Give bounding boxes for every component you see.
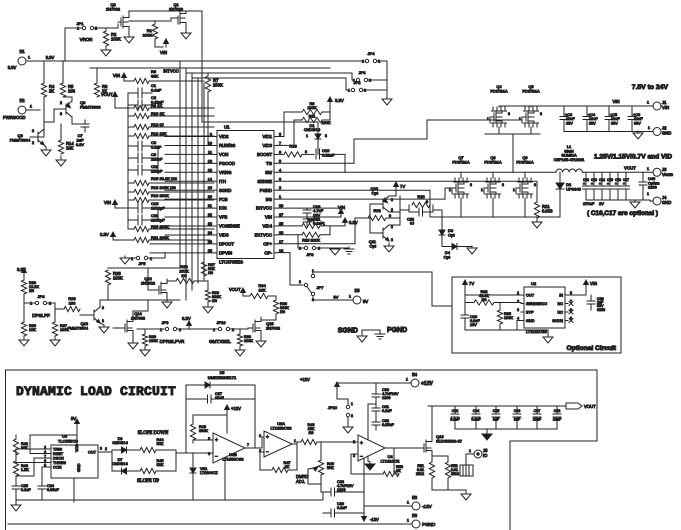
power tag 3.3V (jumpers)	[182, 316, 191, 329]
connector sense header	[460, 454, 473, 476]
capacitor C34 0.1uF	[471, 406, 481, 429]
svg-text:VIN: VIN	[662, 105, 669, 110]
capacitor C6 10uF 35V	[628, 106, 643, 132]
wire U1 VRNG pin wire	[165, 171, 214, 173]
wire ladder join lower	[157, 208, 159, 220]
wire TG gate route	[354, 120, 522, 163]
wire VIN pin net	[277, 216, 341, 218]
svg-text:0.1uF: 0.1uF	[151, 88, 162, 93]
svg-text:0.1uF: 0.1uF	[151, 145, 162, 150]
svg-text:2N7002: 2N7002	[169, 7, 184, 12]
wire TG net	[277, 162, 354, 164]
wire VID0 riser	[294, 119, 302, 121]
jumper JP3	[353, 70, 371, 83]
capacitor C11 220pF	[128, 164, 163, 175]
svg-text:TG: TG	[266, 161, 273, 166]
svg-text:6.3V: 6.3V	[76, 142, 85, 147]
svg-text:R18 249K 1%: R18 249K 1%	[151, 185, 176, 190]
svg-text:VFB: VFB	[219, 215, 227, 220]
svg-text:100K: 100K	[244, 339, 253, 343]
svg-text:1%: 1%	[280, 310, 285, 314]
svg-text:18: 18	[208, 240, 212, 244]
svg-text:GND: GND	[526, 319, 535, 323]
resistor R33 103	[55, 296, 80, 312]
svg-text:23: 23	[208, 222, 212, 226]
svg-text:0: 0	[426, 200, 428, 204]
resistor R18 249K 1%	[128, 185, 176, 195]
wire VOUT rail	[583, 171, 652, 173]
svg-text:SLOPE UP: SLOPE UP	[137, 479, 159, 484]
wire ladder row R31	[149, 239, 210, 241]
resistor R4 2K	[41, 61, 55, 97]
wire ladder join	[157, 146, 159, 170]
terminal E5	[349, 288, 368, 304]
wire U1 SGND pin wire	[165, 189, 214, 191]
wire Q3 collector down	[72, 117, 85, 124]
svg-text:GND: GND	[77, 463, 81, 472]
wire U5 pin mesh 2	[30, 435, 77, 454]
ground JP11	[343, 425, 353, 433]
wire ladder row R10	[149, 115, 214, 117]
svg-text:R26 200K: R26 200K	[302, 238, 320, 243]
wire Q3 base net	[44, 109, 59, 122]
svg-text:270uF: 270uF	[583, 201, 595, 206]
wire feedback left riser	[185, 385, 187, 453]
resistor R48 390K	[190, 424, 208, 440]
svg-text:8: 8	[470, 183, 472, 187]
capacitor C33 0.1uF	[450, 406, 460, 429]
wire INTVCC pin net	[277, 207, 338, 209]
svg-text:VID0: VID0	[262, 143, 272, 148]
svg-text:1%: 1%	[482, 298, 487, 302]
svg-text:9: 9	[210, 133, 212, 137]
svg-text:BYP: BYP	[526, 311, 534, 315]
svg-text:VID2: VID2	[219, 134, 229, 139]
resistor R23 200K	[128, 224, 169, 232]
svg-text:VRNG: VRNG	[219, 170, 232, 175]
svg-text:C34: C34	[473, 409, 480, 413]
ground for Q6 emitter	[41, 147, 51, 156]
wire U3A feedback	[288, 444, 297, 470]
transistor Q10 Opt	[370, 186, 393, 212]
capacitor C26 3.3uF 16V	[461, 303, 480, 331]
wire EXTVCC net	[277, 234, 302, 236]
resistor R28 100K	[105, 270, 123, 300]
label SLOPE DOWN	[138, 431, 169, 436]
svg-text:Opt: Opt	[372, 191, 379, 196]
svg-text:1: 1	[213, 328, 215, 332]
svg-text:12uF: 12uF	[553, 418, 562, 422]
capacitor C32 0.05uF	[372, 418, 395, 430]
svg-text:INTVCC: INTVCC	[256, 206, 272, 211]
svg-text:3.3V: 3.3V	[46, 55, 55, 60]
wire U1 VOSENSE pin wire	[165, 225, 214, 227]
ground optional circuit	[543, 335, 553, 343]
svg-text:JP6: JP6	[38, 294, 46, 299]
jumper JP6	[24, 294, 55, 306]
net label VRON	[80, 37, 93, 42]
svg-text:2: 2	[351, 414, 353, 418]
resistor R42 33K	[13, 439, 28, 455]
transistor Q6 FMMT3904	[10, 129, 44, 145]
ground symbol SGND	[357, 330, 380, 342]
svg-text:BOOST: BOOST	[257, 152, 272, 157]
svg-text:DSCH: DSCH	[53, 457, 64, 461]
resistor R19 230K	[128, 193, 169, 203]
svg-text:2: 2	[60, 101, 62, 105]
net label VOUT (output)	[624, 166, 636, 171]
capacitor C5 10uF 35V	[605, 106, 620, 132]
svg-text:1: 1	[28, 56, 30, 60]
ground for Q14	[128, 340, 138, 349]
ground for R37	[50, 336, 60, 346]
jumper JP1	[77, 21, 97, 31]
svg-text:1uF: 1uF	[514, 418, 521, 422]
svg-text:LT1358CS8: LT1358CS8	[222, 457, 244, 462]
diode VR1 LT1634CZ	[190, 453, 218, 500]
resistor R21 0.008	[534, 202, 553, 218]
power tag VIN	[160, 39, 168, 55]
svg-text:1: 1	[469, 449, 471, 453]
svg-text:VIN: VIN	[590, 281, 597, 286]
svg-text:11: 11	[208, 150, 212, 154]
svg-text:-12V: -12V	[422, 504, 433, 509]
wire ladder row R9	[149, 80, 204, 82]
wire Q6 collector up	[43, 110, 45, 129]
svg-text:3: 3	[305, 150, 307, 154]
svg-text:7: 7	[279, 141, 281, 145]
wire dynamic ground rail	[16, 499, 323, 501]
ground dynamic load left	[11, 500, 21, 511]
svg-text:+: +	[623, 182, 625, 186]
svg-text:50K: 50K	[327, 466, 334, 470]
transistor Q12 2N7002	[141, 276, 167, 298]
terminal E3 -12V	[407, 495, 433, 510]
wire DPRSLPVR wire	[137, 328, 164, 330]
jumper JP8	[299, 246, 320, 257]
svg-text:C36: C36	[514, 409, 521, 413]
svg-text:DPSLPF: DPSLPF	[32, 313, 50, 318]
resistor R26 200K	[302, 232, 320, 242]
wire JP1 pin2 to R2 and Q2 gate	[94, 24, 118, 28]
svg-text:1: 1	[648, 126, 650, 130]
svg-text:1%: 1%	[208, 271, 213, 275]
svg-text:R15 22.6K 1%: R15 22.6K 1%	[151, 176, 177, 181]
svg-text:50K: 50K	[157, 463, 164, 467]
svg-text:100K: 100K	[149, 339, 158, 343]
jumper JP11	[328, 399, 353, 424]
wire U5 pin mesh 3	[16, 458, 48, 476]
transistor Q7 FDS7B1A	[449, 155, 472, 198]
wire U1 VON pin wire	[165, 153, 214, 155]
wire 5V to U5	[76, 427, 78, 445]
wire U4 V+ up	[368, 404, 376, 440]
svg-text:BG: BG	[266, 197, 273, 202]
svg-text:13: 13	[208, 168, 212, 172]
transistor Q13 FMMT3904	[68, 306, 104, 331]
wire JP2 pin2 to ground riser	[363, 89, 387, 91]
ground (open) near JP8	[330, 249, 340, 255]
svg-text:GMTXSEL: GMTXSEL	[209, 339, 231, 344]
wire Q3 emitter up	[63, 97, 72, 101]
wire OP- net	[277, 253, 303, 285]
svg-text:FDS7B1A: FDS7B1A	[490, 88, 508, 93]
svg-text:VID3: VID3	[219, 233, 229, 238]
svg-text:R16: R16	[289, 144, 297, 149]
wire Q5 drain	[530, 106, 532, 107]
wire bus riser D	[197, 78, 199, 283]
resistor R34 10K	[243, 283, 268, 299]
wire JP1 pin1 to 3.3V rail	[65, 28, 82, 61]
resistor R37 100K	[52, 303, 69, 336]
svg-text:237K: 237K	[179, 269, 189, 274]
svg-text:35V: 35V	[566, 121, 573, 125]
wire R46 to U4 +input	[317, 441, 358, 443]
capacitor C1 0.1uF	[128, 83, 162, 98]
svg-text:DPRSLPVR: DPRSLPVR	[160, 339, 185, 344]
ground for R14	[56, 156, 66, 166]
capacitor C21 0.1uF	[303, 213, 324, 226]
svg-text:10K: 10K	[258, 288, 265, 293]
svg-text:DYNAMIC LOAD CIRCUIT: DYNAMIC LOAD CIRCUIT	[16, 384, 176, 399]
wire U2 GND pin down	[517, 321, 521, 331]
transistor Q4 FDS7B1A	[487, 84, 510, 127]
svg-text:JP3: JP3	[359, 70, 367, 75]
capacitor C8 0.1uF	[128, 140, 162, 151]
resistor R47 1K	[272, 461, 290, 473]
wire ladder row R15	[149, 182, 214, 184]
svg-text:0.008: 0.008	[542, 209, 553, 214]
capacitor C4 10uF 35V	[583, 106, 598, 132]
diode D2 UPS840	[556, 172, 582, 217]
op-amp U5 TLC555CD timer	[44, 434, 102, 503]
svg-text:E3: E3	[412, 495, 418, 500]
diode D3 Opt	[439, 228, 455, 246]
terminal J4 GND	[643, 192, 671, 205]
power tag VIN (U1 pin 27)	[338, 205, 345, 217]
wire Q2 drain to R1/Q1 gate	[129, 20, 171, 22]
svg-text:2N7002: 2N7002	[106, 7, 121, 12]
svg-text:100K: 100K	[113, 276, 123, 281]
wire U4 out	[385, 447, 408, 449]
resistor R5 103	[60, 61, 75, 97]
svg-text:VIN: VIN	[613, 99, 620, 104]
wire R24 to node	[194, 280, 208, 282]
svg-text:3: 3	[32, 129, 34, 133]
svg-text:DPOUT: DPOUT	[219, 242, 234, 247]
svg-text:ITH: ITH	[219, 179, 226, 184]
svg-text:+12V: +12V	[300, 377, 310, 382]
svg-text:1K: 1K	[285, 465, 290, 469]
jumper JP5	[127, 253, 165, 266]
resistor R32 46.4K 1%	[474, 290, 494, 305]
wire cap bank rail	[428, 405, 566, 407]
resistor R44 50K	[136, 438, 176, 453]
terminal J5 IO	[466, 448, 488, 458]
svg-text:103: 103	[69, 301, 76, 306]
svg-text:103: 103	[68, 89, 76, 94]
wire Q10/Q11 emitter junction	[389, 212, 400, 225]
svg-text:10K: 10K	[66, 146, 74, 151]
svg-text:21: 21	[208, 204, 212, 208]
svg-text:27: 27	[279, 213, 283, 217]
svg-text:2: 2	[32, 141, 34, 145]
wire slope node	[175, 450, 177, 471]
svg-text:1: 1	[647, 101, 649, 105]
wire R49 wiper wiring	[308, 469, 321, 484]
optional circuit boundary box	[452, 277, 621, 353]
terminal J2 GND	[648, 126, 671, 136]
svg-text:2: 2	[279, 186, 281, 190]
wire mid to SW	[512, 134, 514, 172]
dynamic load circuit boundary box	[6, 370, 598, 530]
svg-text:1: 1	[647, 192, 649, 196]
label 7.5V to 24V	[632, 84, 669, 91]
capacitor C2 0.22uF	[128, 95, 164, 110]
svg-text:SLOPE DOWN: SLOPE DOWN	[138, 431, 169, 436]
svg-text:1.25V/1.15V/0.7V and VID: 1.25V/1.15V/0.7V and VID	[594, 154, 672, 161]
svg-text:VID4: VID4	[262, 224, 272, 229]
svg-text:7.5V to 24V: 7.5V to 24V	[632, 84, 669, 91]
terminal J1 VIN	[645, 100, 669, 110]
wire cap bank bottom rail	[455, 428, 557, 430]
wire 7V to U2 OUT	[465, 288, 521, 295]
svg-text:5V: 5V	[71, 416, 76, 421]
wire U3B V- down	[224, 458, 226, 501]
resistor R51 0.01 2512	[416, 462, 435, 490]
svg-text:PGND: PGND	[260, 188, 272, 193]
svg-text:220pF: 220pF	[151, 169, 163, 174]
svg-text:E1: E1	[19, 49, 25, 54]
power tag -12V (C29)	[362, 513, 379, 522]
svg-text:INTVCC: INTVCC	[163, 69, 179, 74]
svg-text:3.3V: 3.3V	[8, 65, 17, 70]
wire bottom fet drains to SW	[460, 172, 462, 178]
power tag 5V (U5)	[71, 416, 79, 427]
capacitor C35 1uF	[492, 406, 500, 429]
label 270uF 2V	[583, 201, 604, 206]
resistor R24 237K 1%	[176, 264, 194, 284]
wire U5 pin mesh 4	[16, 462, 48, 464]
svg-text:12: 12	[208, 159, 212, 163]
capacitor C40 Option 1206	[639, 172, 659, 200]
svg-text:3: 3	[353, 454, 355, 458]
wire bus riser E	[203, 83, 205, 276]
svg-text:EXTVCC: EXTVCC	[255, 233, 272, 238]
svg-text:0.1uF: 0.1uF	[21, 488, 31, 492]
wire Q12 gate wire	[148, 289, 152, 291]
svg-text:IO: IO	[483, 453, 488, 458]
wire C28/C29 right node	[363, 441, 365, 513]
capacitor C16	[615, 172, 622, 200]
svg-text:R11: R11	[309, 113, 316, 118]
wire VIN rail top	[499, 105, 652, 107]
transistor Q11 Opt	[369, 225, 393, 249]
svg-text:1: 1	[513, 188, 515, 192]
ground for JP2/JP3/JP4	[382, 96, 392, 105]
svg-text:2512: 2512	[451, 472, 459, 476]
svg-text:0.05uF: 0.05uF	[47, 488, 60, 492]
svg-text:7: 7	[247, 443, 249, 447]
diode D4 Opt	[442, 244, 468, 260]
wire Q13 collector up	[100, 300, 108, 307]
svg-text:5V: 5V	[363, 299, 368, 304]
svg-text:0.1uF: 0.1uF	[450, 418, 460, 422]
svg-text:4: 4	[279, 168, 281, 172]
svg-text:8: 8	[502, 183, 504, 187]
wire R28 top wire	[108, 267, 180, 269]
svg-text:+12V: +12V	[231, 406, 241, 411]
wire bottom rail	[8, 523, 412, 525]
svg-text:1: 1	[160, 328, 162, 332]
svg-text:R8 1K: R8 1K	[151, 103, 162, 108]
svg-text:Optional Circuit: Optional Circuit	[567, 345, 617, 352]
wire PGND net	[277, 190, 560, 217]
capacitor C25 0.1uF	[12, 476, 31, 500]
capacitor C16 1000pF	[115, 201, 165, 213]
capacitor C7 1uF 6.3V	[76, 120, 89, 147]
svg-text:R10 1K: R10 1K	[151, 111, 165, 116]
wire mid node	[485, 133, 540, 135]
svg-text:3.3V: 3.3V	[182, 316, 191, 321]
svg-text:R20: R20	[417, 194, 425, 199]
resistor R15 22.6K 1%	[128, 176, 177, 186]
op-amp U1 LTC3735EG controller IC	[208, 125, 283, 265]
svg-text:R19 230K: R19 230K	[151, 193, 169, 198]
label pin2 net	[105, 447, 107, 451]
wire U3B output	[245, 437, 264, 448]
ground for R2	[101, 46, 111, 56]
svg-text:1: 1	[294, 439, 296, 443]
ground U4	[365, 462, 375, 470]
resistor R16	[277, 144, 307, 158]
transistor Q2 2N7002	[106, 2, 129, 31]
wire U1 FCB pin wire	[165, 198, 214, 200]
wire JP8 feed	[298, 235, 304, 248]
resistor R46 15K 1%	[301, 423, 317, 445]
wire R32 wiring	[465, 295, 474, 303]
svg-text:2K: 2K	[396, 469, 401, 473]
svg-text:E4: E4	[412, 372, 418, 377]
wire BOOST node right	[320, 154, 345, 172]
wire ladder left bus	[127, 93, 129, 229]
svg-text:E5: E5	[354, 288, 360, 293]
svg-text:200K: 200K	[321, 120, 330, 125]
svg-text:FDS7B1A: FDS7B1A	[452, 159, 470, 164]
wire Q4 gate stub	[489, 117, 491, 120]
wire U1 ITH pin wire	[165, 180, 214, 182]
svg-text:50K: 50K	[157, 442, 164, 446]
svg-text:0805: 0805	[597, 308, 605, 312]
ground for Q13	[99, 325, 109, 333]
svg-text:68K: 68K	[151, 74, 158, 79]
power tag VOUT (ladder)	[101, 92, 117, 100]
svg-text:2: 2	[353, 440, 355, 444]
wire optional circuit ground rail	[465, 330, 548, 334]
svg-text:+: +	[599, 182, 601, 186]
ground symbol PGND	[375, 330, 385, 339]
wire R1 bottom to VIN tag	[155, 39, 163, 47]
svg-text:24: 24	[208, 231, 212, 235]
svg-text:C38: C38	[554, 409, 561, 413]
svg-text:200K: 200K	[307, 105, 316, 110]
jumper JP2	[348, 80, 366, 93]
svg-text:3: 3	[259, 434, 261, 438]
resistor R7 200K	[205, 73, 223, 145]
svg-text:+: +	[591, 182, 593, 186]
svg-text:1: 1	[647, 167, 649, 171]
power tag VIN (ladder)	[113, 73, 126, 81]
